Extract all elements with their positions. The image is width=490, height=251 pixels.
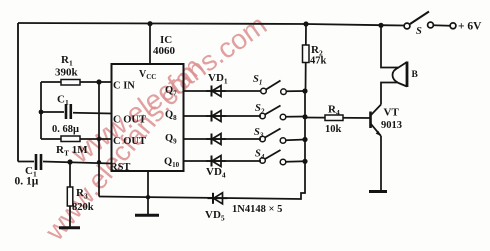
svg-text:B: B — [412, 70, 419, 80]
capacitor C1 0.1u — [18, 154, 112, 170]
switch S3 — [260, 129, 305, 144]
node bus row4 — [302, 159, 307, 164]
speaker B — [393, 62, 408, 88]
+6V label — [458, 21, 482, 33]
svg-text:0. 68μ: 0. 68μ — [52, 124, 79, 135]
pin label Q9 — [165, 133, 177, 146]
wire top rail — [18, 23, 404, 26]
wire output row 3 — [184, 138, 262, 140]
diode VD2 — [206, 111, 226, 122]
svg-text:4060: 4060 — [153, 45, 176, 57]
IC U1 4060 box — [112, 64, 184, 171]
RT value label — [56, 144, 88, 158]
C1 labels — [52, 94, 79, 136]
node rail / RST row — [97, 160, 101, 164]
wire IC ground stub — [147, 171, 149, 214]
node RST row / R3 junction — [67, 159, 72, 164]
wire bottom bus — [99, 161, 305, 199]
resistor R3 — [67, 162, 73, 227]
C1 0.1u labels — [15, 165, 39, 188]
R4 value label — [325, 104, 342, 136]
svg-text:C OUT: C OUT — [113, 136, 146, 147]
wire bus row1-row4 — [304, 91, 306, 161]
S2 label — [255, 103, 265, 116]
wire emitter down — [380, 136, 382, 191]
wire Vcc pin stub — [149, 24, 151, 64]
1N4148 x5 label — [232, 204, 282, 215]
VT label — [381, 107, 402, 132]
wire collector to speaker — [381, 83, 398, 105]
S3 label — [254, 127, 264, 140]
pin label C OUT (1) — [113, 115, 146, 126]
pin label C IN — [113, 81, 135, 92]
node R1 row / rail junction — [96, 79, 101, 84]
ground below IC — [135, 214, 159, 217]
wire inner left rail — [40, 82, 42, 139]
pin label Vcc — [139, 69, 156, 81]
VD4 label — [206, 166, 226, 180]
pin label Q10 — [164, 157, 180, 170]
S label — [416, 26, 422, 37]
transistor VT 9013 — [371, 105, 382, 137]
pin label C OUT (2) — [113, 136, 146, 147]
svg-text:+ 6V: + 6V — [458, 21, 482, 33]
wire speaker top to rail — [381, 25, 398, 67]
svg-text:RST: RST — [110, 162, 130, 173]
svg-text:S: S — [416, 26, 422, 37]
+6V terminal — [450, 23, 456, 29]
ground below R3 — [59, 226, 80, 229]
node collector branch tap — [378, 23, 383, 28]
resistor R2 — [303, 24, 310, 91]
svg-text:RT 1M: RT 1M — [56, 144, 88, 158]
node Vcc supply tap — [147, 21, 152, 26]
svg-text:10k: 10k — [325, 124, 342, 135]
pin label RST — [110, 162, 130, 173]
svg-text:390k: 390k — [55, 67, 79, 79]
svg-text:47k: 47k — [310, 56, 327, 67]
R3 value label — [72, 187, 94, 213]
IC label — [153, 34, 176, 57]
pin label Q7 — [165, 85, 177, 98]
svg-text:1N4148 × 5: 1N4148 × 5 — [232, 204, 282, 215]
wire output row 4 — [184, 160, 262, 162]
diode VD5 — [208, 193, 228, 204]
svg-text:C OUT: C OUT — [113, 115, 146, 126]
svg-text:0. 1μ: 0. 1μ — [15, 176, 39, 188]
S1 label — [253, 74, 262, 87]
diode VD3 — [206, 134, 226, 145]
switch S1 — [261, 81, 305, 95]
wire to +6V terminal — [434, 24, 451, 26]
svg-text:9013: 9013 — [381, 120, 402, 131]
svg-text:C IN: C IN — [113, 81, 135, 92]
wire output row 2 — [184, 115, 262, 117]
VD1 label — [208, 72, 228, 86]
capacitor C1 0.68u — [41, 104, 112, 119]
node bus row1 — [302, 88, 307, 93]
R1 value label — [55, 54, 79, 79]
pin label Q8 — [165, 110, 177, 123]
speaker label B — [412, 70, 419, 80]
svg-text:VT: VT — [384, 107, 400, 119]
node IC ground / bus — [146, 195, 150, 199]
wire left rail — [17, 23, 19, 162]
svg-text:820k: 820k — [72, 202, 94, 213]
switch S2 — [260, 106, 305, 120]
node cap row / inner rail junction — [39, 110, 44, 115]
wire output row 1 — [184, 90, 262, 92]
R2 value label — [310, 44, 327, 67]
resistor R1 — [41, 80, 112, 86]
switch S4 — [260, 150, 305, 165]
S4 label — [255, 149, 265, 162]
node rail / RT row — [97, 137, 101, 141]
diode VD1 — [206, 86, 226, 97]
VD5 label — [205, 209, 225, 223]
diode VD4 — [206, 156, 226, 167]
node top-left of R2 — [303, 21, 308, 26]
node bus row3 — [302, 137, 307, 142]
wire mid vertical rail — [98, 82, 100, 197]
resistor R4 — [305, 115, 371, 121]
switch S — [404, 12, 433, 29]
node bus row2 / R4 tap — [302, 114, 307, 119]
resistor RT 1M — [41, 136, 112, 142]
ground below emitter — [369, 190, 387, 193]
